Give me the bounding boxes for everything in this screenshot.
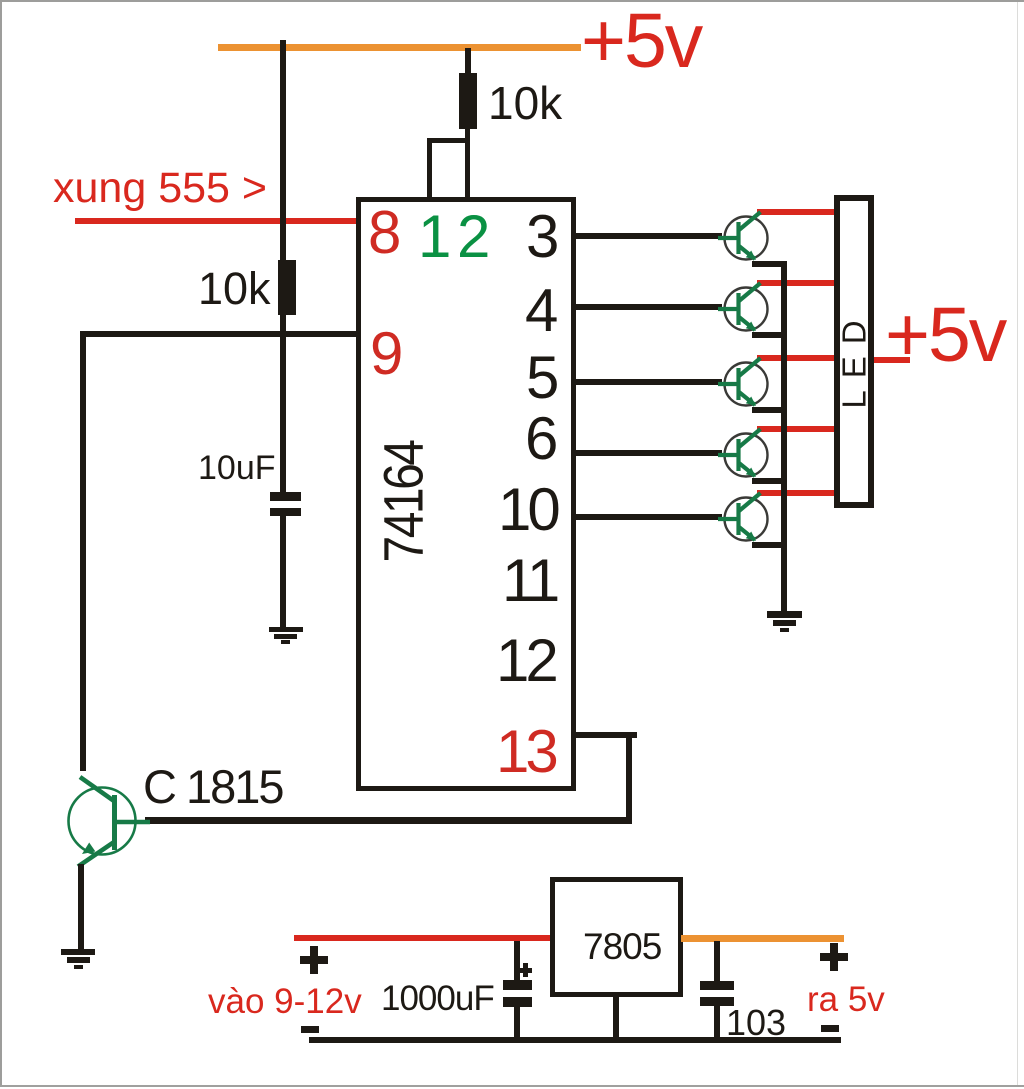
- transistor Q5: [714, 487, 778, 551]
- +5v label right: [885, 297, 1005, 374]
- wire Q1 collector (red): [757, 209, 836, 215]
- wire: R1 to pin2 stub: [465, 128, 471, 198]
- plus sign input: [300, 956, 329, 964]
- plus sign output: [820, 953, 849, 961]
- wire input 9-12v (red): [294, 935, 554, 942]
- wire Q4 emitter: [752, 478, 787, 484]
- transistor Q1: [714, 206, 778, 270]
- pin label 6: [525, 409, 558, 469]
- label 74164 vertical: [377, 441, 432, 562]
- wire Q2 emitter: [752, 332, 787, 338]
- wire LED to +5v (red): [874, 357, 910, 363]
- label vao 9-12v: [208, 984, 362, 1019]
- label 10uF: [198, 451, 276, 485]
- transistor Q2: [714, 277, 778, 341]
- transistor Q6 C1815: [55, 765, 165, 880]
- wire: pin1 stub vertical: [427, 138, 433, 198]
- wire Q2 collector (red): [757, 280, 836, 286]
- wire: rail to R1: [465, 48, 471, 73]
- wire Q4 collector (red): [757, 426, 836, 432]
- pin label 3: [526, 207, 559, 267]
- LED bar box: [834, 195, 874, 508]
- wire: C2 to ground: [280, 516, 286, 627]
- label ra 5v: [807, 982, 885, 1017]
- minus sign input: [301, 1026, 319, 1033]
- wire: pin9 horizontal: [83, 331, 361, 337]
- wire: xung 555 input (red): [75, 218, 361, 224]
- capacitor C2 10uF: [270, 492, 301, 501]
- wire Q1 emitter: [752, 261, 787, 267]
- wire pin10: [576, 514, 722, 520]
- label 10k (left): [198, 266, 271, 311]
- pin label 11: [502, 551, 556, 611]
- capacitor C1 1000uF: [514, 941, 520, 980]
- pin label 10: [498, 480, 557, 540]
- ground rail bottom: [309, 1037, 841, 1044]
- minus sign output: [821, 1025, 839, 1032]
- wire pin5: [576, 379, 722, 385]
- IC U1 74164 box: [356, 197, 576, 791]
- wire Q3 emitter: [752, 407, 787, 413]
- transistor Q4: [714, 423, 778, 487]
- wire pin13 vertical down: [626, 732, 632, 823]
- wire 7805 ground pin: [613, 997, 619, 1037]
- capacitor C3 103: [714, 941, 720, 981]
- ground (Q6 emitter): [61, 949, 95, 956]
- wire pin3: [576, 233, 722, 239]
- resistor R2 10k body (left): [278, 260, 296, 315]
- label C 1815: [143, 763, 283, 810]
- wire Q3 collector (red): [757, 355, 836, 361]
- pin label 12: [496, 631, 555, 691]
- label 10k (top): [488, 80, 562, 126]
- regulator U2 7805 box: [550, 877, 683, 997]
- +5v label top: [581, 3, 701, 80]
- pin label 9: [370, 324, 403, 384]
- pin label 1: [418, 207, 451, 267]
- small plus at C1: [518, 968, 532, 973]
- wire: vertical from rail through R2 to C2: [280, 40, 286, 494]
- wire Q6 base horizontal: [145, 817, 632, 824]
- pin label 4: [525, 281, 558, 341]
- pin label 8: [368, 203, 401, 263]
- pin label 2: [457, 207, 490, 267]
- wire pin13 horizontal: [576, 732, 637, 738]
- wire: left vertical to Q6 collector: [80, 331, 87, 771]
- wire: stub horizontal pin1-pin2: [427, 138, 470, 143]
- wire Q5 emitter: [752, 542, 787, 548]
- ground (emitter bus): [767, 611, 802, 618]
- wire pin4: [576, 304, 722, 310]
- pin label 5: [526, 348, 559, 408]
- +5V rail (orange): [218, 44, 581, 51]
- label LED vertical: [838, 308, 871, 408]
- label 7805: [583, 928, 661, 965]
- emitter bus vertical: [781, 261, 787, 611]
- label 1000uF: [381, 981, 494, 1016]
- ground (under C2): [269, 627, 303, 633]
- wire pin6: [576, 450, 722, 456]
- pin label 13: [496, 722, 555, 782]
- wire 7805 output (orange): [681, 935, 844, 942]
- transistor Q3: [714, 352, 778, 416]
- label 103: [726, 1005, 786, 1041]
- label xung 555: [53, 167, 267, 210]
- wire Q6 emitter down: [78, 864, 85, 950]
- resistor R1 10k body (top): [459, 73, 477, 129]
- wire Q5 collector (red): [757, 490, 836, 496]
